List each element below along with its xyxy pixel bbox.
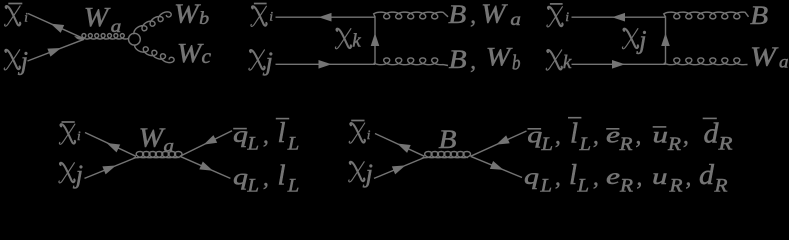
boson W_c coil down (diagram 1)	[135, 45, 174, 63]
svg-text:L: L	[578, 134, 591, 155]
svg-text:b: b	[199, 8, 209, 28]
arrow outward on q line (diagram 5)	[490, 161, 504, 170]
arrow on chibar_i line (diagram 5)	[397, 143, 411, 152]
svg-text:q: q	[233, 164, 248, 189]
svg-text:a: a	[779, 52, 789, 72]
wire fermion chibar_i to vertex (diagram 1)	[28, 14, 84, 39]
svg-text:,: ,	[593, 165, 599, 190]
svg-text:L: L	[576, 175, 589, 194]
svg-text:a: a	[510, 9, 521, 29]
arrow on chibar_i line (diagram 1)	[51, 24, 65, 33]
boson coil top to B (diagram 3)	[664, 12, 749, 19]
arrow on chi_j line (diagram 4)	[102, 165, 116, 174]
wire fermion chi_j to vertex (diagram 1)	[28, 39, 85, 61]
svg-text:,: ,	[683, 124, 689, 149]
svg-text:i: i	[77, 128, 81, 143]
svg-text:,: ,	[637, 165, 643, 190]
arrow on chi_j line (diagram 5)	[392, 165, 406, 174]
svg-text:L: L	[246, 176, 259, 195]
arrow on chi_j line (diagram 1)	[47, 48, 61, 57]
svg-text:a: a	[164, 136, 175, 156]
boson W_a coil (diagram 4)	[135, 152, 182, 158]
wire fermion bottom (diagram 3)	[572, 63, 666, 65]
svg-text:,: ,	[470, 3, 476, 28]
arrow right on bottom line (diagram 2)	[319, 60, 332, 69]
svg-text:c: c	[202, 46, 212, 68]
vertex loop (diagram 1)	[129, 33, 141, 45]
svg-text:W: W	[84, 2, 111, 32]
svg-text:R: R	[667, 134, 682, 155]
svg-text:W: W	[139, 123, 166, 153]
wire fermion chi_j to vertex (diagram 5)	[374, 158, 425, 179]
boson B coil (diagram 5)	[423, 152, 470, 158]
wire fermion vertex to q (diagram 5)	[471, 156, 523, 177]
node chibar_i label (diagram 5)	[349, 123, 365, 143]
node chi_k label (diagram 3)	[546, 50, 562, 70]
svg-text:L: L	[287, 134, 300, 155]
arrow outward on q line (diagram 4)	[199, 162, 213, 171]
arrow left on top line (diagram 2)	[319, 13, 332, 22]
svg-text:e: e	[606, 123, 620, 148]
svg-text:L: L	[540, 134, 553, 155]
svg-text:L: L	[539, 175, 552, 194]
svg-text:,: ,	[555, 165, 561, 190]
boson coil top to B,W_a (diagram 2)	[374, 12, 448, 19]
wire fermion chi_j to vertex (diagram 4)	[85, 158, 137, 179]
svg-text:W: W	[750, 42, 779, 72]
svg-text:,: ,	[470, 49, 476, 74]
wire fermion top (diagram 2)	[276, 16, 376, 18]
svg-text:i: i	[269, 9, 273, 24]
boson coil bottom to W_a (diagram 3)	[664, 58, 748, 65]
svg-text:q: q	[524, 164, 539, 189]
boson W_a coil (diagram 1)	[76, 34, 128, 39]
svg-text:R: R	[619, 175, 634, 194]
svg-text:d: d	[699, 160, 715, 191]
svg-text:u: u	[652, 164, 668, 189]
svg-text:B: B	[449, 44, 467, 74]
svg-text:R: R	[717, 133, 733, 154]
arrow right on bottom line (diagram 3)	[612, 60, 625, 69]
svg-text:i: i	[24, 10, 28, 25]
svg-text:i: i	[367, 127, 371, 142]
node chi_j label (diagram 5)	[349, 162, 365, 182]
svg-text:l: l	[569, 159, 577, 191]
svg-text:L: L	[287, 176, 300, 195]
svg-text:i: i	[565, 9, 569, 24]
wire fermion bottom (diagram 2)	[276, 63, 376, 65]
svg-text:W: W	[174, 0, 201, 29]
node chibar_i label (diagram 4)	[59, 124, 75, 144]
boson coil bottom to B,W_b (diagram 2)	[374, 58, 448, 66]
node chibar_i label (diagram 1)	[5, 6, 21, 26]
svg-text:b: b	[512, 51, 521, 75]
svg-text:l: l	[278, 159, 286, 191]
svg-text:W: W	[481, 0, 508, 28]
arrow toward vertex on qbar line (diagram 4)	[204, 135, 218, 145]
node chi_j label (diagram 2)	[249, 50, 265, 70]
svg-text:,: ,	[636, 124, 642, 149]
svg-text:a: a	[111, 16, 122, 36]
svg-text:k: k	[352, 30, 361, 51]
svg-text:W: W	[486, 41, 514, 71]
svg-text:,: ,	[686, 165, 692, 190]
node chibar_i label (diagram 3)	[547, 7, 563, 27]
svg-text:R: R	[668, 175, 683, 194]
wire fermion vertex to q (diagram 4)	[180, 156, 230, 178]
node chi_j label (diagram 4)	[59, 163, 75, 183]
svg-text:W: W	[177, 38, 204, 68]
label chi_k (diagram 2)	[335, 29, 351, 49]
svg-text:e: e	[606, 164, 620, 189]
svg-text:,: ,	[263, 165, 269, 190]
svg-text:d: d	[704, 119, 720, 150]
node chibar_i label (diagram 2)	[251, 6, 267, 26]
svg-text:B: B	[439, 124, 457, 154]
wire fermion chibar_i to vertex (diagram 5)	[375, 134, 425, 157]
propagator chi_k vertical (diagram 2)	[374, 17, 376, 64]
arrow up on propagator (diagram 3)	[661, 33, 670, 46]
propagator chi_j vertical (diagram 3)	[665, 17, 667, 64]
svg-text:R: R	[618, 134, 633, 155]
arrow toward vertex on qbar line (diagram 5)	[496, 135, 510, 144]
svg-text:q: q	[233, 122, 248, 147]
svg-text:B: B	[750, 0, 768, 30]
svg-text:l: l	[278, 117, 286, 149]
svg-text:,: ,	[263, 123, 269, 148]
label chi_j (diagram 3)	[622, 29, 638, 49]
node chi_j label (diagram 1)	[4, 50, 20, 70]
svg-text:R: R	[713, 175, 728, 194]
svg-text:k: k	[563, 52, 572, 73]
svg-text:,: ,	[555, 124, 561, 149]
svg-text:,: ,	[593, 124, 599, 149]
svg-text:l: l	[570, 118, 578, 150]
arrow up on propagator (diagram 2)	[371, 33, 380, 46]
boson W_b coil up (diagram 1)	[134, 12, 171, 34]
svg-text:L: L	[246, 134, 259, 155]
wire fermion top (diagram 3)	[572, 16, 666, 18]
wire fermion chibar_i to vertex (diagram 4)	[85, 133, 136, 157]
arrow on chibar_i line (diagram 4)	[107, 143, 121, 152]
svg-text:q: q	[527, 123, 542, 148]
wire fermion vertex to qbar (diagram 4)	[180, 131, 232, 157]
wire fermion vertex to qbar (diagram 5)	[471, 131, 527, 156]
svg-text:B: B	[448, 0, 466, 29]
arrow left on top line (diagram 3)	[612, 13, 625, 22]
